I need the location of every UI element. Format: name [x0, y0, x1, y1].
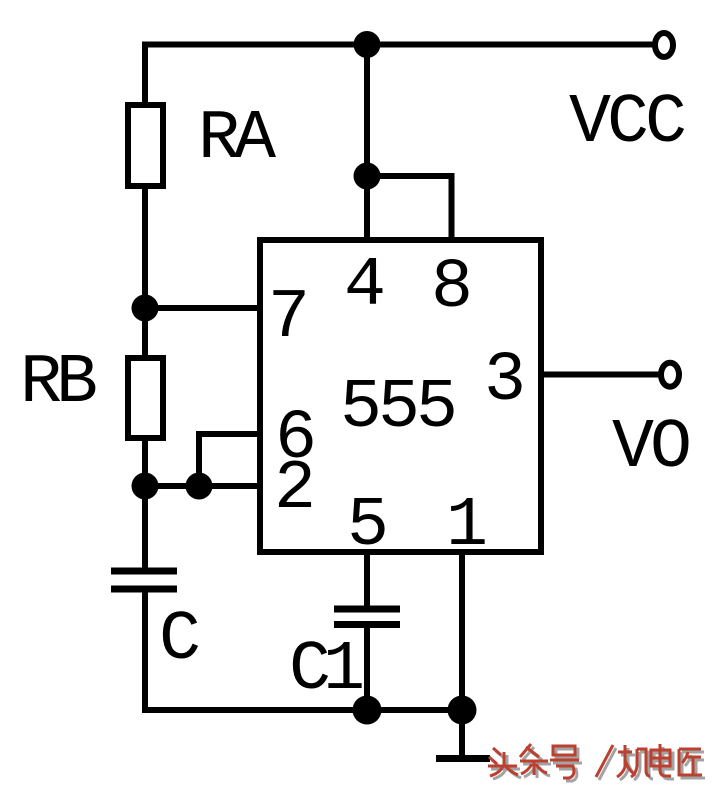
- wire pin3 to VO terminal: [541, 372, 659, 378]
- wire VCC branch down to junction row: [364, 45, 370, 177]
- wire pin8 branch: [367, 176, 452, 243]
- wire RB bottom to node2: [142, 438, 148, 489]
- svg-text:RA: RA: [198, 100, 276, 179]
- ground bar: [436, 755, 490, 762]
- wire pin5 down to C1: [364, 552, 370, 609]
- svg-text:3: 3: [484, 342, 522, 421]
- svg-text:555: 555: [340, 369, 454, 448]
- node junction pins 4-8: [354, 163, 381, 190]
- node junction 2 left: [132, 473, 159, 500]
- svg-text:VCC: VCC: [569, 84, 685, 163]
- node junction top rail: [354, 31, 381, 58]
- wire pin4 stub: [364, 176, 370, 243]
- node junction 7: [132, 295, 159, 322]
- svg-text:1: 1: [446, 487, 485, 566]
- capacitor C1 bottom plate: [334, 621, 400, 628]
- wire pin6 elbow: [199, 434, 262, 486]
- wire C1 bottom to rail: [364, 625, 370, 711]
- capacitor C1 top plate: [334, 606, 400, 613]
- node junction 2 right: [186, 473, 213, 500]
- svg-text:RB: RB: [20, 344, 96, 423]
- capacitor C top plate: [111, 568, 177, 575]
- terminal VCC: [655, 33, 673, 57]
- svg-text:7: 7: [268, 279, 306, 358]
- resistor RA: [128, 105, 163, 186]
- wire C bottom to bottom rail: [145, 589, 462, 710]
- node junction C1 bottom: [353, 696, 382, 725]
- wire node7 to pin7: [145, 305, 262, 311]
- watermark toutiao logo text: [491, 747, 705, 781]
- capacitor C bottom plate: [111, 586, 177, 593]
- wire RA bottom to RB top: [142, 186, 148, 361]
- svg-text:5: 5: [347, 487, 385, 566]
- terminal VO: [661, 363, 679, 387]
- node junction pin1 rail: [448, 696, 477, 725]
- svg-text:C: C: [159, 601, 199, 680]
- svg-text:C1: C1: [289, 631, 362, 710]
- wire node2 row to pin2: [145, 483, 262, 489]
- svg-text:8: 8: [431, 249, 469, 328]
- svg-text:4: 4: [344, 247, 383, 326]
- IC box U1 555: [260, 240, 541, 552]
- wire node2 down to capacitor C: [142, 486, 148, 571]
- resistor RB: [128, 358, 163, 438]
- wire top rail: [145, 45, 653, 103]
- svg-text:VO: VO: [612, 409, 689, 488]
- wire pin1 down through rail to ground: [459, 552, 465, 755]
- svg-text:2: 2: [274, 450, 312, 529]
